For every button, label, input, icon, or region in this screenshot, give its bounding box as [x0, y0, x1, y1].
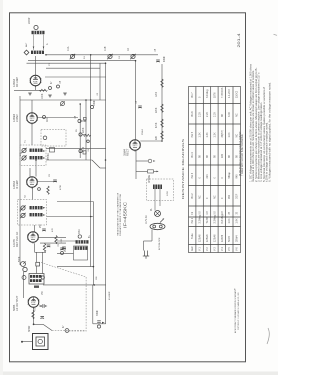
svg-text:250: 250 — [40, 223, 42, 228]
svg-text:DGF: DGF — [236, 193, 239, 199]
svg-text:TENS: TENS — [206, 217, 209, 224]
svg-text:OSC: OSC — [79, 229, 81, 234]
svg-text:2.2K: 2.2K — [199, 112, 202, 117]
svg-text:2. Socket connections are sho: 2. Socket connections are shown as botto… — [255, 67, 258, 182]
svg-text:Tube: Tube — [191, 233, 194, 239]
svg-text:.02: .02 — [83, 146, 85, 150]
svg-text:945: 945 — [236, 174, 239, 179]
svg-text:1200: 1200 — [156, 91, 158, 97]
svg-text:5. Nominal tolerance on compo: 5. Nominal tolerance on component values… — [263, 87, 266, 182]
svg-text:0: 0 — [199, 177, 202, 179]
svg-text:V 3: V 3 — [213, 247, 216, 251]
svg-text:SCHEMATIC IS REFER TO THE VALU: SCHEMATIC IS REFER TO THE VALUE LISTING — [119, 193, 122, 236]
svg-text:Pin 5: Pin 5 — [191, 131, 194, 137]
svg-text:3. Measured values are from s: 3. Measured values are from socket pin t… — [258, 72, 261, 182]
svg-text:9.8: 9.8 — [200, 211, 202, 215]
svg-text:† TAKEN WITH VACUUM TUBE VOLTM: † TAKEN WITH VACUUM TUBE VOLTMETER. — [241, 134, 244, 176]
svg-text:RESISTANCE READINGS: RESISTANCE READINGS — [181, 139, 185, 199]
svg-text:RF AMP: RF AMP — [15, 77, 19, 87]
svg-text:NC: NC — [236, 113, 239, 117]
svg-text:A PHOTOFACT STANDARD NOTATI: A PHOTOFACT STANDARD NOTATION SCHEMATIC — [234, 289, 237, 333]
svg-text:0: 0 — [199, 96, 202, 98]
svg-text:V 4: V 4 — [221, 247, 224, 251]
svg-text:40MF: 40MF — [164, 56, 166, 62]
svg-text:1. DC Voltage measurements ar: 1. DC Voltage measurements are at 20,000… — [249, 63, 252, 182]
svg-text:C1B: C1B — [105, 46, 107, 51]
svg-text:T2: T2 — [25, 195, 27, 198]
svg-text:IF=455KC: IF=455KC — [123, 202, 128, 228]
svg-text:22K: 22K — [206, 174, 209, 179]
svg-text:1876: 1876 — [213, 92, 216, 98]
svg-text:1200: 1200 — [167, 190, 169, 196]
svg-text:180: 180 — [221, 153, 224, 158]
svg-text:C2: C2 — [128, 47, 130, 51]
svg-text:22K: 22K — [156, 135, 158, 140]
svg-text:35W4: 35W4 — [236, 235, 239, 242]
svg-text:NC: NC — [213, 195, 216, 199]
svg-text:Pin 2: Pin 2 — [191, 193, 194, 199]
svg-text:1.3K: 1.3K — [199, 132, 202, 137]
svg-text:98tap: 98tap — [228, 172, 231, 179]
svg-text:10MF: 10MF — [94, 100, 96, 106]
svg-text:30MF: 30MF — [97, 310, 99, 316]
svg-text:9.8: 9.8 — [207, 211, 209, 215]
svg-text:117V AC: 117V AC — [145, 215, 148, 224]
svg-text:3.3Meg: 3.3Meg — [213, 215, 216, 224]
svg-text:V 1: V 1 — [199, 247, 202, 251]
svg-text:98: 98 — [236, 155, 239, 158]
svg-text:0: 0 — [221, 197, 224, 199]
svg-text:455KC: 455KC — [48, 153, 50, 160]
svg-text:33(57): 33(57) — [221, 130, 224, 137]
svg-text:1.0K: 1.0K — [228, 218, 231, 223]
svg-text:INTERLOCK: INTERLOCK — [159, 237, 161, 250]
svg-text:98: 98 — [213, 155, 216, 158]
svg-text:40-40MF: 40-40MF — [109, 291, 111, 300]
svg-text:C1A: C1A — [67, 46, 70, 51]
svg-text:12BA6: 12BA6 — [213, 234, 216, 242]
svg-text:98: 98 — [199, 155, 202, 158]
svg-text:500K: 500K — [19, 256, 21, 262]
svg-text:±15% in voltage and resistance: ±15% in voltage and resistance readings … — [266, 122, 269, 182]
svg-text:SW: SW — [96, 276, 98, 280]
svg-text:CONV: CONV — [15, 114, 19, 122]
svg-text:.05: .05 — [136, 100, 138, 104]
svg-text:LOOP: LOOP — [29, 17, 31, 24]
svg-text:220K: 220K — [156, 107, 158, 113]
svg-text:Pin 3: Pin 3 — [191, 172, 194, 178]
svg-text:150: 150 — [42, 290, 44, 295]
svg-text:.05: .05 — [75, 115, 77, 119]
svg-text:DET AVC AF: DET AVC AF — [15, 231, 19, 247]
svg-text:470K: 470K — [156, 122, 158, 128]
svg-text:9.8: 9.8 — [214, 211, 216, 215]
svg-text:.05: .05 — [155, 48, 157, 52]
svg-text:12BE6: 12BE6 — [206, 234, 209, 242]
svg-text:.05: .05 — [60, 80, 62, 84]
svg-text:Pin 6: Pin 6 — [191, 111, 194, 117]
svg-text:COPYRIGHT © HOWARD W. SAMS & C: COPYRIGHT © HOWARD W. SAMS & CO., INC. — [237, 292, 240, 330]
svg-text:A: A — [46, 43, 49, 45]
svg-text:220K: 220K — [83, 127, 85, 133]
svg-text:25: 25 — [229, 211, 231, 214]
svg-text:470K: 470K — [60, 184, 62, 190]
svg-text:T3: T3 — [35, 308, 37, 311]
svg-text:AF OUTPUT: AF OUTPUT — [15, 295, 19, 311]
svg-text:9.8: 9.8 — [222, 211, 224, 215]
svg-text:35: 35 — [237, 211, 239, 214]
svg-text:0: 0 — [206, 197, 209, 199]
svg-text:.005: .005 — [61, 238, 63, 243]
svg-text:12BA6: 12BA6 — [199, 234, 202, 242]
svg-text:0: 0 — [213, 177, 216, 179]
svg-text:Fil: Fil — [192, 212, 194, 215]
svg-text:12AT6: 12AT6 — [221, 234, 224, 242]
svg-text:4. Line voltage maintained at: 4. Line voltage maintained at 117 volts … — [260, 102, 263, 182]
svg-text:1.1.2K3: 1.1.2K3 — [228, 89, 231, 98]
svg-text:Item: Item — [191, 246, 194, 251]
svg-text:3.3Meg: 3.3Meg — [199, 215, 202, 224]
svg-text:T1: T1 — [25, 140, 27, 143]
svg-text:47K: 47K — [52, 228, 54, 232]
svg-text:110K2: 110K2 — [236, 90, 239, 98]
svg-text:NC: NC — [199, 195, 202, 199]
svg-text:98: 98 — [228, 155, 231, 158]
svg-text:1.0K: 1.0K — [228, 132, 231, 137]
svg-text:0: 0 — [221, 177, 224, 179]
svg-text:.05: .05 — [97, 92, 99, 96]
svg-text:3.3K: 3.3K — [228, 112, 231, 117]
svg-text:98: 98 — [221, 114, 224, 117]
svg-text:measured at 1,000 ohms per vol: measured at 1,000 ohms per volt. Socket … — [252, 70, 255, 182]
svg-text:R5: R5 — [76, 128, 78, 132]
svg-text:VOL: VOL — [65, 247, 67, 252]
svg-text:NC: NC — [236, 134, 239, 138]
svg-text:V 6: V 6 — [236, 247, 239, 251]
svg-text:47: 47 — [51, 81, 53, 84]
svg-text:1.9K: 1.9K — [236, 218, 239, 223]
svg-text:RECT: RECT — [126, 148, 130, 156]
svg-text:R1: R1 — [84, 55, 86, 59]
svg-text:AVC: AVC — [46, 117, 49, 122]
svg-text:35W4: 35W4 — [142, 129, 144, 135]
svg-text:1.3K: 1.3K — [213, 132, 216, 137]
svg-text:Pin 7: Pin 7 — [191, 92, 194, 98]
svg-text:98: 98 — [206, 155, 209, 158]
svg-text:47: 47 — [63, 325, 65, 328]
svg-text:7.4YRDS: 7.4YRDS — [221, 87, 224, 98]
svg-text:SPKR: SPKR — [29, 325, 31, 332]
svg-text:450: 450 — [228, 194, 231, 199]
svg-text:C4: C4 — [119, 55, 121, 59]
svg-text:2.2K: 2.2K — [206, 112, 209, 117]
svg-text:IF AMP: IF AMP — [15, 180, 19, 189]
svg-text:1.3K: 1.3K — [206, 132, 209, 137]
svg-text:100K: 100K — [42, 93, 44, 99]
svg-text:CHOKE: CHOKE — [149, 174, 151, 183]
svg-text:201-4: 201-4 — [236, 32, 241, 47]
svg-text:3.1Meg: 3.1Meg — [206, 89, 209, 98]
svg-text:C8: C8 — [49, 173, 51, 177]
svg-text:2.2K: 2.2K — [213, 112, 216, 117]
svg-text:.01: .01 — [58, 243, 60, 247]
svg-text:V 2: V 2 — [206, 247, 209, 251]
svg-text:ANT: ANT — [25, 42, 28, 47]
svg-text:50C5: 50C5 — [228, 235, 231, 242]
svg-text:6. Voltages measured with no: 6. Voltages measured with no signal appl… — [268, 82, 271, 182]
svg-text:Pin 4: Pin 4 — [191, 152, 194, 158]
svg-text:Pin 1: Pin 1 — [191, 217, 194, 223]
svg-text:V 5: V 5 — [228, 247, 231, 251]
svg-text:PL: PL — [151, 207, 153, 211]
